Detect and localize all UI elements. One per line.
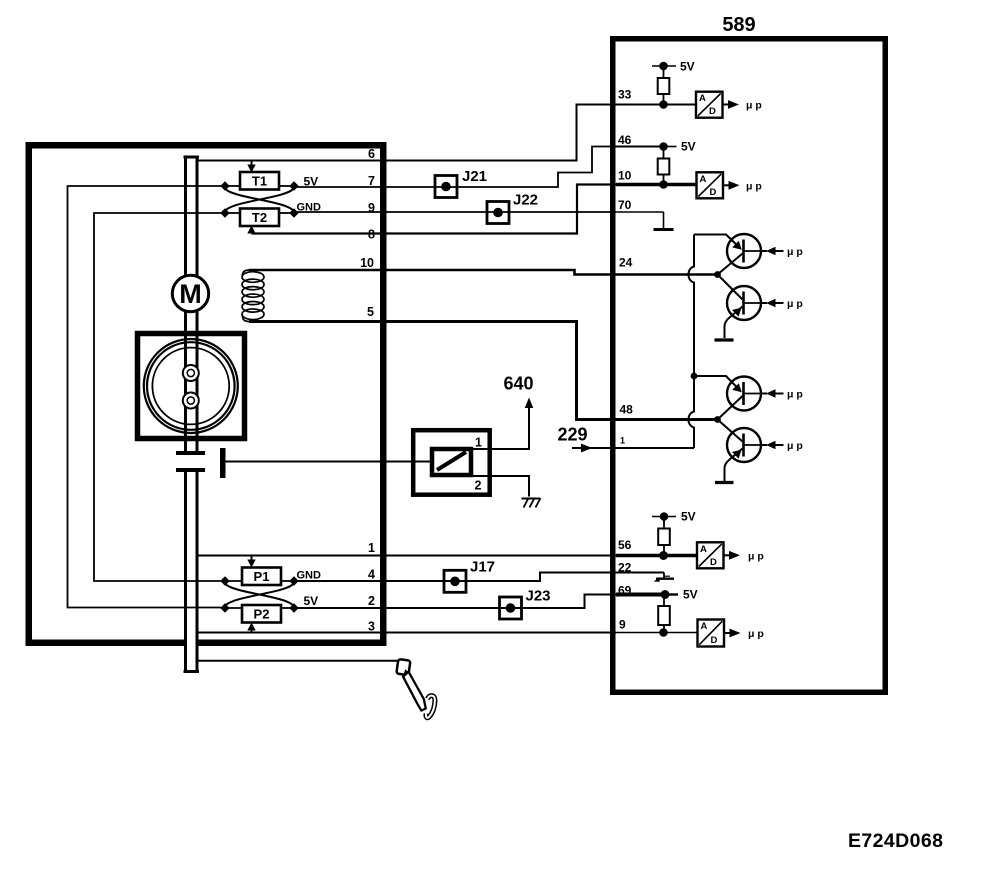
svg-text:2: 2 (368, 594, 375, 608)
svg-text:GND: GND (297, 202, 322, 214)
svg-text:J22: J22 (513, 192, 538, 209)
svg-text:46: 46 (618, 133, 632, 147)
svg-text:μ p: μ p (748, 628, 764, 640)
svg-text:56: 56 (618, 538, 632, 552)
svg-text:5V: 5V (304, 174, 319, 188)
svg-text:J23: J23 (526, 588, 551, 605)
svg-text:μ p: μ p (746, 180, 762, 192)
svg-text:D: D (709, 106, 716, 117)
svg-text:T1: T1 (252, 174, 267, 189)
svg-text:7: 7 (368, 174, 375, 188)
svg-text:5V: 5V (304, 594, 319, 608)
svg-text:μ p: μ p (746, 100, 762, 112)
svg-text:10: 10 (618, 169, 632, 183)
svg-text:J17: J17 (470, 559, 495, 576)
svg-text:70: 70 (618, 198, 632, 212)
svg-text:24: 24 (619, 256, 633, 270)
svg-text:5V: 5V (681, 510, 696, 524)
svg-text:9: 9 (368, 201, 375, 215)
svg-text:1: 1 (368, 541, 375, 555)
svg-text:48: 48 (620, 403, 634, 417)
svg-text:μ p: μ p (787, 298, 803, 310)
svg-text:A: A (700, 174, 707, 185)
svg-text:1: 1 (475, 436, 482, 450)
svg-text:3: 3 (368, 620, 375, 634)
svg-text:5: 5 (367, 305, 374, 319)
svg-text:J21: J21 (462, 168, 487, 185)
svg-text:1: 1 (620, 436, 625, 446)
svg-text:D: D (710, 557, 717, 568)
svg-text:5V: 5V (681, 140, 696, 154)
svg-text:P1: P1 (254, 569, 270, 584)
svg-text:μ p: μ p (787, 246, 803, 258)
svg-text:33: 33 (618, 88, 632, 102)
svg-text:A: A (701, 621, 708, 632)
svg-text:T2: T2 (252, 210, 267, 225)
svg-text:D: D (710, 187, 717, 198)
svg-text:5V: 5V (683, 588, 698, 602)
svg-text:GND: GND (297, 570, 322, 582)
svg-text:5V: 5V (680, 60, 695, 74)
svg-text:2: 2 (475, 479, 482, 493)
svg-text:6: 6 (368, 147, 375, 161)
svg-text:8: 8 (368, 228, 375, 242)
svg-text:10: 10 (360, 256, 374, 270)
svg-text:P2: P2 (254, 607, 270, 622)
svg-text:229: 229 (558, 425, 588, 445)
svg-text:A: A (700, 544, 707, 555)
svg-text:M: M (179, 279, 202, 309)
svg-text:μ p: μ p (748, 550, 764, 562)
svg-text:D: D (711, 635, 718, 646)
svg-text:589: 589 (722, 14, 755, 36)
svg-text:A: A (699, 93, 706, 104)
svg-text:μ p: μ p (787, 440, 803, 452)
svg-text:640: 640 (504, 374, 534, 394)
svg-text:μ p: μ p (787, 389, 803, 401)
svg-text:E724D068: E724D068 (848, 830, 943, 852)
svg-text:9: 9 (619, 618, 626, 632)
svg-text:4: 4 (368, 568, 375, 582)
